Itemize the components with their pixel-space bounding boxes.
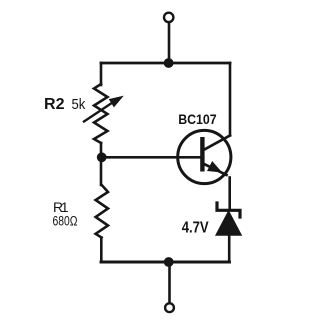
wire right rail upper (collector) bbox=[229, 63, 232, 136]
svg-text:5k: 5k bbox=[72, 96, 86, 113]
terminal top bbox=[164, 13, 173, 22]
wire right rail mid (emitter to zener) bbox=[228, 178, 231, 210]
potentiometer arrow bbox=[84, 97, 123, 122]
wire base bbox=[102, 156, 200, 159]
resistor R2 5k (potentiometer) bbox=[94, 84, 108, 143]
node junction bottom bbox=[164, 257, 174, 267]
wire left rail lower bbox=[100, 238, 103, 263]
wire bottom rail bbox=[101, 261, 230, 264]
resistor R1 680 ohm bbox=[96, 185, 108, 238]
svg-text:R2: R2 bbox=[44, 96, 65, 113]
wire left rail upper bbox=[100, 63, 103, 85]
node junction top bbox=[164, 58, 174, 68]
wire top terminal stem bbox=[168, 23, 171, 62]
terminal bottom bbox=[165, 303, 174, 312]
wire left rail mid bbox=[100, 143, 103, 185]
zener diode 4.7V bbox=[216, 203, 241, 235]
svg-text:680Ω: 680Ω bbox=[53, 214, 78, 229]
wire top rail bbox=[101, 62, 230, 65]
wire bottom terminal stem bbox=[168, 262, 171, 303]
wire zener to bottom rail bbox=[228, 235, 231, 262]
svg-text:R1: R1 bbox=[53, 199, 69, 215]
svg-text:4.7V: 4.7V bbox=[182, 220, 210, 237]
transistor Q1 BC107 bbox=[178, 130, 231, 183]
node junction base bbox=[97, 152, 107, 162]
svg-text:BC107: BC107 bbox=[178, 111, 217, 127]
